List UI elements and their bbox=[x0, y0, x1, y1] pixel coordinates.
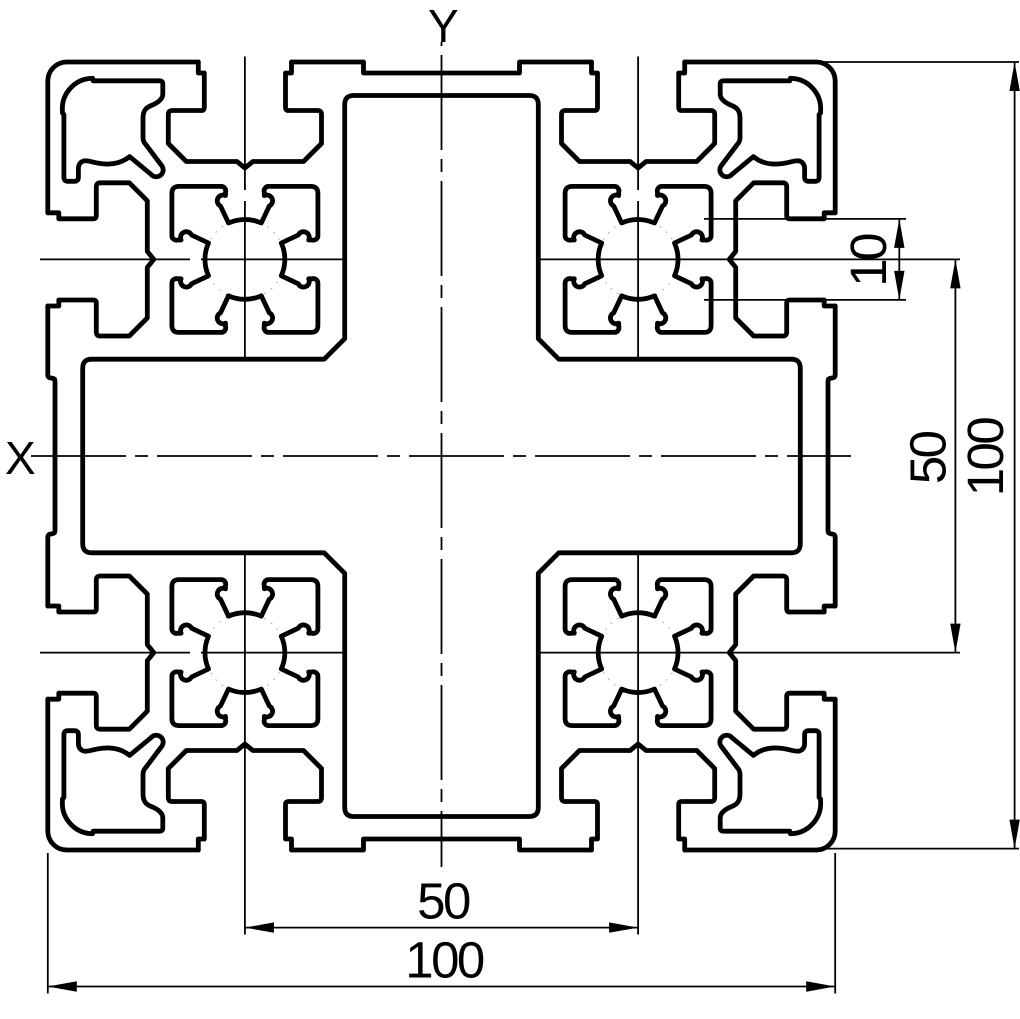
extension lines bottom 100 bbox=[48, 853, 835, 994]
arrows 100 bottom bbox=[48, 981, 77, 991]
arrows 50 bottom bbox=[245, 922, 274, 932]
svg-text:50: 50 bbox=[900, 431, 957, 484]
node centerline horizontal upper bbox=[40, 258, 960, 260]
svg-text:Y: Y bbox=[428, 0, 459, 52]
dim line 100 right bbox=[1014, 62, 1016, 849]
center cross cavity bbox=[83, 96, 801, 817]
svg-text:10: 10 bbox=[840, 234, 897, 287]
Y axis centerline bbox=[441, 42, 443, 867]
arrows 10 right bbox=[894, 219, 904, 248]
profile quadrant top-left bbox=[48, 62, 442, 456]
arrows 100 right bbox=[1009, 62, 1019, 91]
dim line 50 bottom bbox=[245, 927, 638, 929]
profile quadrant top-right bbox=[442, 62, 836, 456]
svg-text:100: 100 bbox=[405, 932, 484, 989]
dim line 100 bottom bbox=[48, 986, 835, 988]
svg-text:X: X bbox=[5, 432, 36, 484]
node centerline vertical right bbox=[637, 57, 639, 935]
svg-text:50: 50 bbox=[417, 873, 470, 930]
dim line 10 right bbox=[898, 219, 900, 300]
profile quadrant bottom-right bbox=[442, 456, 836, 850]
profile quadrant bottom-left bbox=[48, 456, 442, 850]
extension lines 10 dim bbox=[704, 219, 906, 300]
svg-text:100: 100 bbox=[957, 418, 1014, 497]
arrows 50 right bbox=[950, 259, 960, 288]
dim line 50 right bbox=[954, 259, 956, 652]
node centerline horizontal lower bbox=[40, 652, 960, 654]
extension lines right 100 bbox=[820, 62, 1019, 849]
X axis centerline bbox=[31, 455, 851, 457]
node centerline vertical left bbox=[244, 57, 246, 935]
